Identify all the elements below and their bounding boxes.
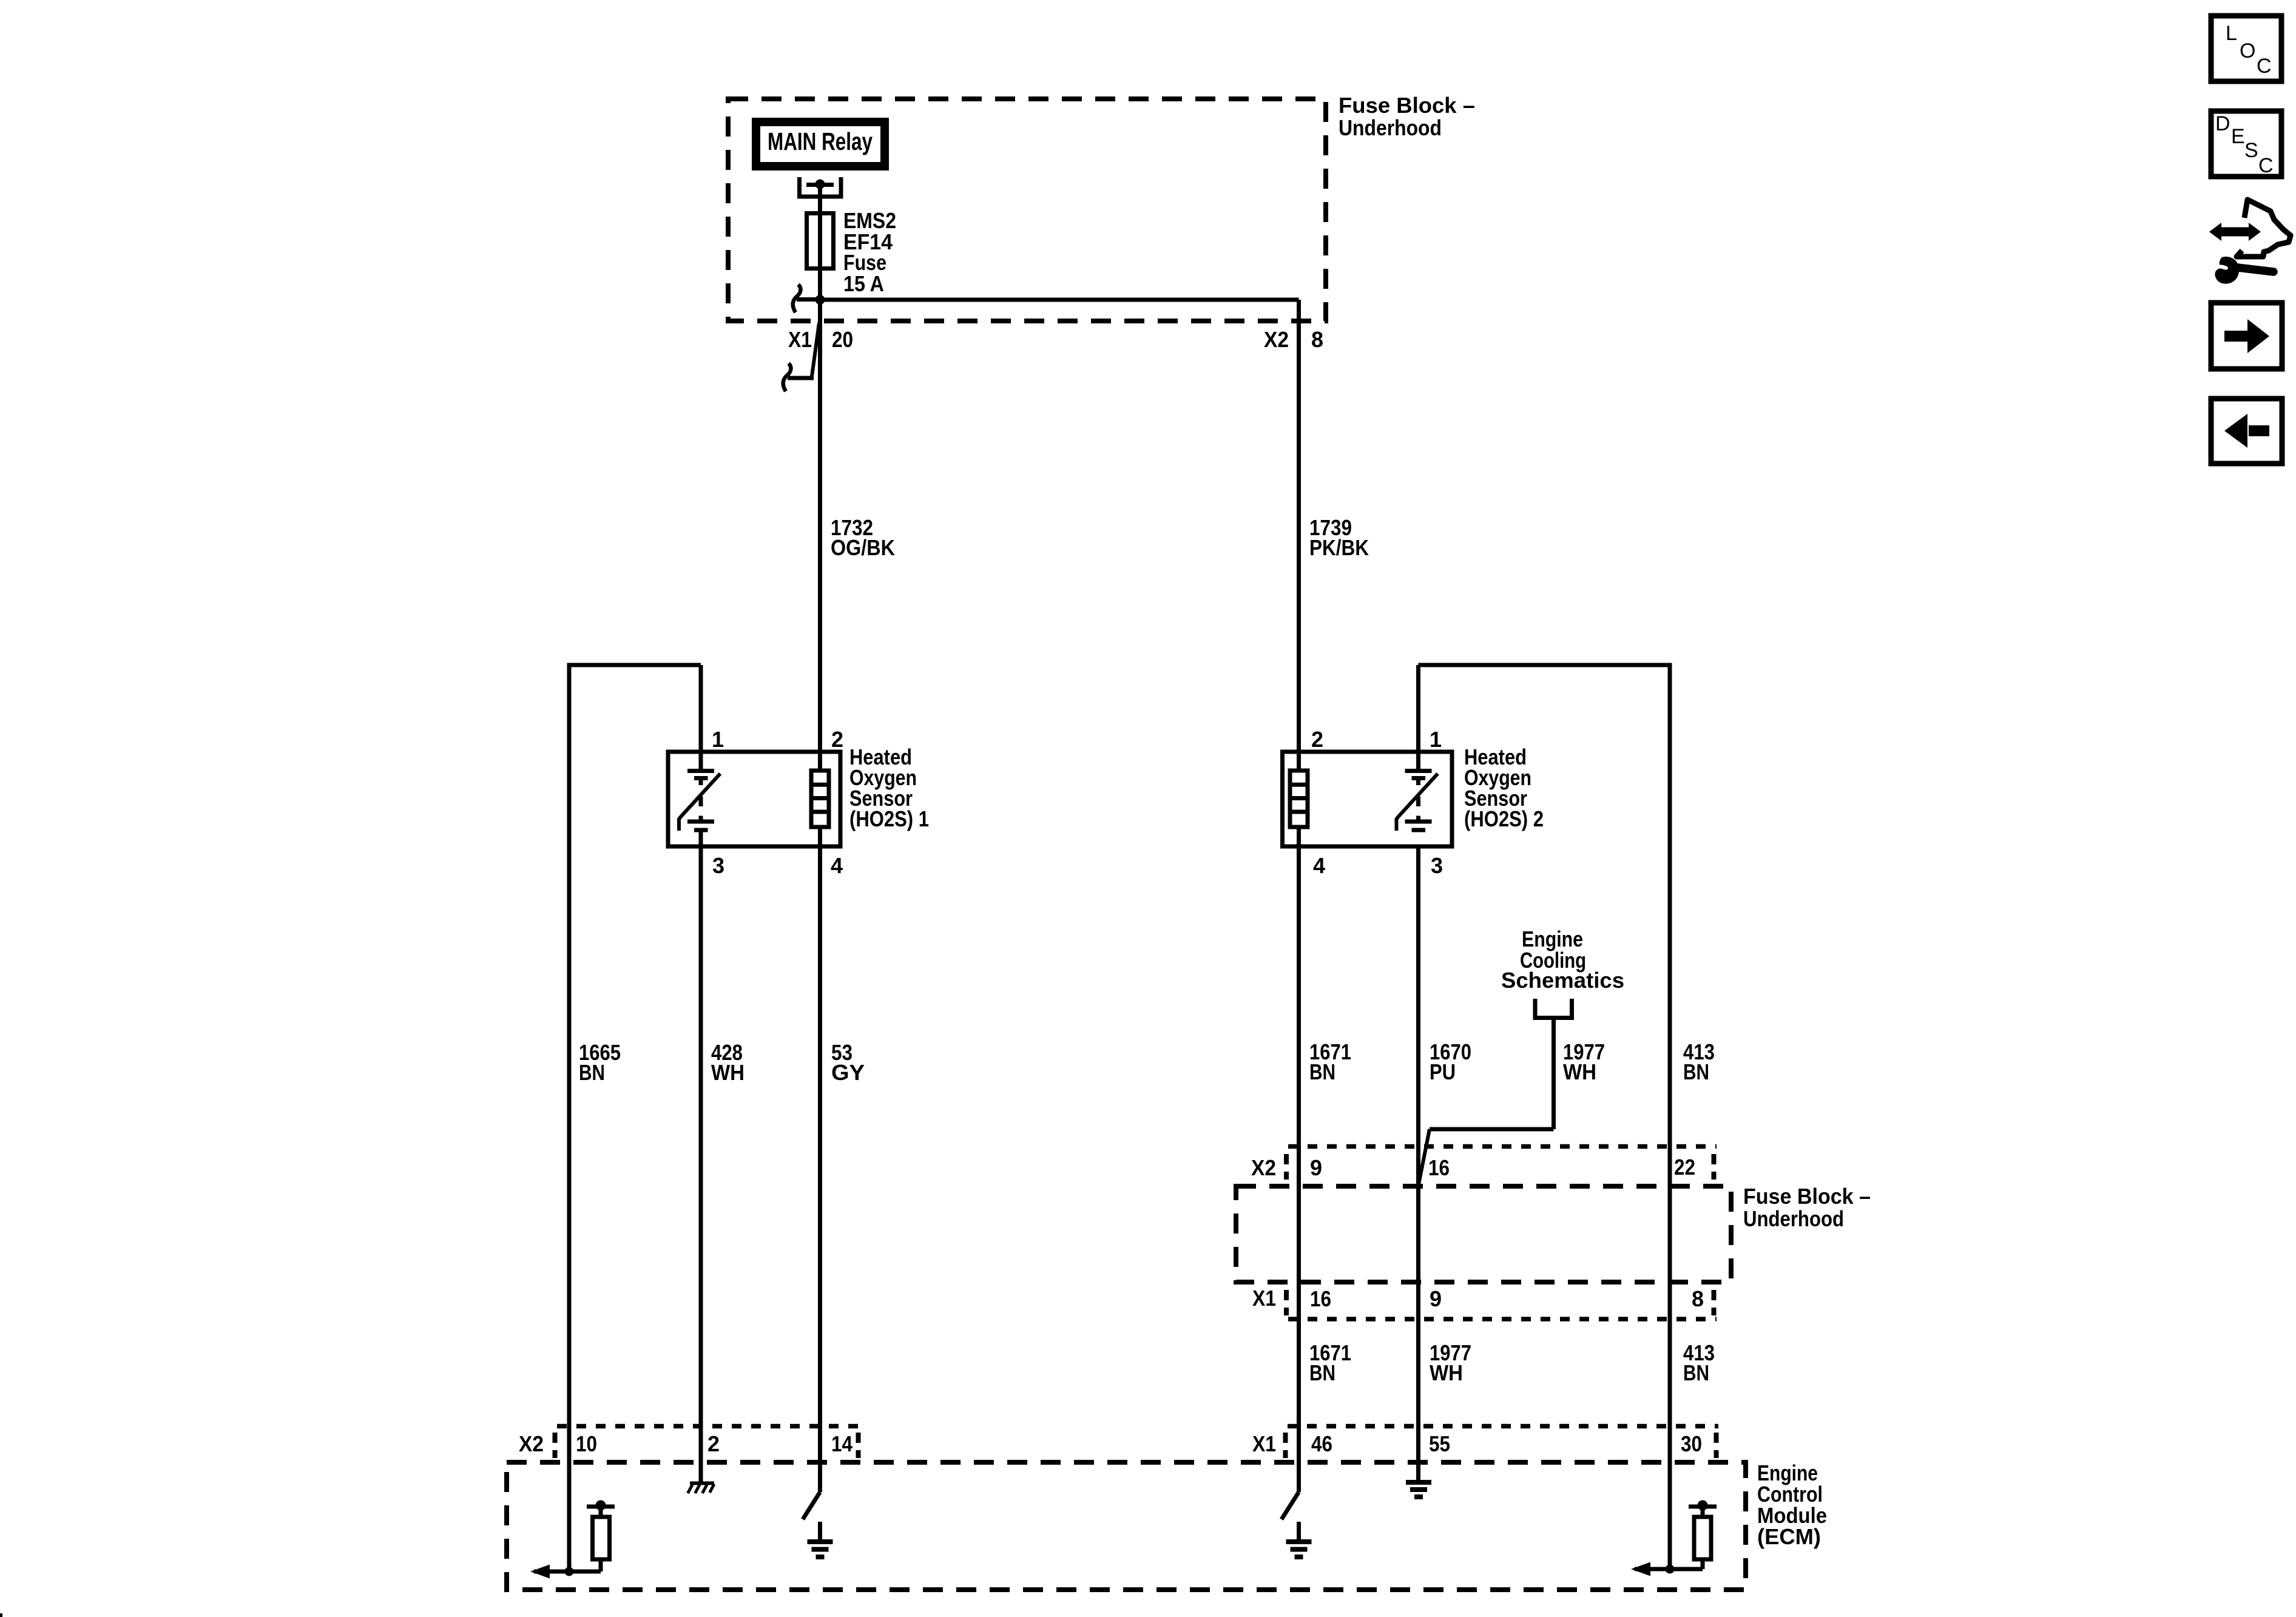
svg-text:WH: WH xyxy=(1430,1360,1463,1385)
svg-text:9: 9 xyxy=(1430,1286,1442,1311)
ECM internal: switch blade at pin 46 xyxy=(1281,1492,1299,1519)
svg-text:1: 1 xyxy=(1430,727,1442,752)
svg-text:20: 20 xyxy=(832,327,853,352)
label: 1977 WH (upper) xyxy=(1563,1039,1605,1084)
svg-text:4: 4 xyxy=(831,853,843,878)
node: junction dot at fuse output xyxy=(815,295,825,305)
fuse block underhood dashed box (top) xyxy=(728,99,1326,321)
wire 1739 PK/BK: right drop from feed to HO2S2 pin 2 xyxy=(1297,300,1301,771)
svg-text:Underhood: Underhood xyxy=(1743,1206,1844,1231)
svg-text:46: 46 xyxy=(1311,1431,1332,1456)
svg-text:30: 30 xyxy=(1681,1431,1702,1456)
label: connector X1 pin 20 xyxy=(788,327,853,352)
svg-text:10: 10 xyxy=(576,1431,597,1456)
ground: earth ground at ECM pin 55 xyxy=(1406,1482,1431,1497)
icon: LOC box (top right) xyxy=(2211,16,2281,81)
sensor B1 HO2S1 box xyxy=(668,752,840,846)
mark: page corner speck bottom-left xyxy=(0,1613,2,1617)
wire 1671 BN: HO2S2 pin 4 down through fuse block to ECM X1-46 xyxy=(1297,846,1301,1492)
wire: junction stub left with connector hook (X1-20) xyxy=(793,285,820,312)
ECM internal: switch blade at pin 14 xyxy=(803,1492,820,1519)
wire 1670 PU: HO2S2 pin 3 down to fuse block X2-16 xyxy=(1416,846,1420,1480)
icon: right arrow box xyxy=(2211,303,2282,369)
off-page connector bracket for Engine Cooling Schematics xyxy=(1535,999,1572,1018)
svg-text:9: 9 xyxy=(1310,1155,1322,1180)
svg-text:BN: BN xyxy=(1683,1360,1709,1385)
svg-text:X2: X2 xyxy=(519,1431,544,1456)
label: Heated Oxygen Sensor (HO2S) 2 xyxy=(1464,744,1544,831)
svg-text:OG/BK: OG/BK xyxy=(831,535,895,560)
icon: DESC box xyxy=(2211,111,2281,177)
svg-text:Fuse Block –: Fuse Block – xyxy=(1339,93,1475,118)
svg-text:BN: BN xyxy=(1309,1360,1335,1385)
sensor cell inside HO2S2 xyxy=(1397,771,1438,831)
label: 428 WH xyxy=(711,1040,745,1085)
wire 1977 WH: off-page bracket down, left, diagonal into X2-16 xyxy=(1419,1018,1554,1184)
label: 413 BN (upper) xyxy=(1683,1039,1715,1084)
svg-text:L: L xyxy=(2226,22,2237,45)
wire 1665 BN: HO2S1 pin 1 loop to ECM X2-10 xyxy=(569,663,701,1572)
svg-text:S: S xyxy=(2244,139,2258,162)
label: Heated Oxygen Sensor (HO2S) 1 xyxy=(849,744,929,831)
svg-text:MAIN Relay: MAIN Relay xyxy=(768,127,873,155)
ground: chassis ground at ECM pin 2 xyxy=(688,1484,715,1494)
heater element inside HO2S2 xyxy=(1290,771,1308,827)
fuse EF14 EMS2 15A xyxy=(807,213,834,269)
svg-text:8: 8 xyxy=(1692,1286,1704,1311)
relay K1 contact symbol xyxy=(800,177,842,197)
svg-text:X2: X2 xyxy=(1264,327,1289,352)
label: X1 row pins 16 9 8 xyxy=(1252,1286,1704,1311)
svg-text:22: 22 xyxy=(1674,1155,1695,1180)
label: 1671 BN (lower) xyxy=(1309,1340,1351,1385)
label: Fuse Block - Underhood (top) xyxy=(1339,93,1475,140)
svg-text:X1: X1 xyxy=(1252,1431,1276,1456)
label: 1732 OG/BK xyxy=(831,515,895,560)
svg-text:(ECM): (ECM) xyxy=(1757,1524,1821,1549)
wire 53 GY: HO2S1 pin 4 down to ECM X2-14 xyxy=(818,846,822,1492)
label: ECM X1 pins 46 55 30 xyxy=(1252,1431,1702,1456)
label: Engine Cooling Schematics (off-page reference) xyxy=(1501,927,1624,993)
fuse block underhood dashed box (middle) xyxy=(1236,1186,1731,1282)
svg-text:(HO2S) 2: (HO2S) 2 xyxy=(1464,806,1544,831)
svg-text:14: 14 xyxy=(831,1431,853,1456)
svg-text:WH: WH xyxy=(1563,1059,1596,1084)
svg-text:2: 2 xyxy=(1311,727,1323,752)
svg-text:WH: WH xyxy=(711,1060,745,1085)
svg-text:15 A: 15 A xyxy=(843,271,884,296)
svg-text:16: 16 xyxy=(1428,1155,1450,1180)
svg-text:3: 3 xyxy=(1431,853,1443,878)
svg-text:16: 16 xyxy=(1310,1286,1331,1311)
wire: HO2S1 heater internal stubs xyxy=(818,827,822,846)
relay K1 MAIN Relay box xyxy=(756,122,885,166)
label: HO2S2 pin numbers 2 1 4 3 xyxy=(1311,727,1443,878)
svg-text:BN: BN xyxy=(579,1060,605,1085)
svg-text:X1: X1 xyxy=(1252,1286,1276,1311)
svg-text:E: E xyxy=(2231,125,2245,148)
label: HO2S1 pin numbers 1 2 3 4 xyxy=(712,727,843,878)
wire 1732 OG/BK: fuse junction down to HO2S1 pin 2 xyxy=(818,300,822,771)
svg-text:2: 2 xyxy=(707,1431,720,1456)
svg-text:4: 4 xyxy=(1313,853,1325,878)
svg-text:D: D xyxy=(2215,112,2230,135)
label: EMS2 EF14 Fuse 15 A xyxy=(843,208,896,296)
svg-text:BN: BN xyxy=(1309,1059,1335,1084)
resistor: ECM pull-up at pin 10 xyxy=(587,1501,615,1572)
label: Engine Control Module (ECM) xyxy=(1757,1460,1827,1549)
svg-text:55: 55 xyxy=(1429,1431,1450,1456)
connector row X2 (fuse block middle, dotted) xyxy=(1286,1147,1717,1180)
svg-text:PU: PU xyxy=(1430,1059,1456,1084)
label: 1739 PK/BK xyxy=(1309,515,1369,560)
svg-text:BN: BN xyxy=(1683,1059,1709,1084)
connector row X2 (ECM, dotted) xyxy=(555,1426,862,1459)
svg-text:Underhood: Underhood xyxy=(1339,115,1442,140)
wire: HO2S2 heater bottom stub xyxy=(1297,827,1301,846)
sensor B2 HO2S2 box xyxy=(1283,752,1453,846)
label: connector X2 pin 8 xyxy=(1264,327,1323,352)
ECM internal: signal line with left arrow (pin 10) xyxy=(530,1565,601,1579)
wire: horizontal feed from fuse junction to right drop xyxy=(820,298,1299,302)
svg-text:X1: X1 xyxy=(788,327,812,352)
label: X2 row pins 9 16 22 xyxy=(1251,1155,1695,1180)
label: 1671 BN (upper) xyxy=(1309,1039,1351,1084)
svg-text:3: 3 xyxy=(712,853,724,878)
wire 428 WH: HO2S1 pin 3 down to ECM pin 2 xyxy=(699,832,703,1482)
ground: earth ground below pin 46 xyxy=(1286,1522,1312,1557)
label: 53 GY xyxy=(831,1040,865,1085)
node: ECM pin 30 junction dot xyxy=(1666,1565,1675,1574)
label: 1665 BN xyxy=(579,1040,621,1085)
svg-text:GY: GY xyxy=(831,1060,865,1085)
label: 413 BN (lower) xyxy=(1683,1340,1715,1385)
wire: X1-20 connector diagonal jog and hook xyxy=(783,323,819,391)
svg-text:PK/BK: PK/BK xyxy=(1309,535,1369,560)
svg-text:X2: X2 xyxy=(1251,1155,1276,1180)
svg-text:1: 1 xyxy=(712,727,724,752)
label: 1670 PU xyxy=(1430,1039,1471,1084)
wire 413 BN: HO2S2 pin 1 loop up and right, down to ECM pin 30 xyxy=(1419,663,1670,1570)
ground: earth ground below pin 14 xyxy=(808,1522,833,1557)
node: ECM pin 10 junction dot xyxy=(565,1567,574,1576)
wire: relay contact to fuse to junction (vertical) xyxy=(818,186,822,300)
svg-text:Schematics: Schematics xyxy=(1501,968,1624,993)
svg-text:8: 8 xyxy=(1311,327,1323,352)
connector row X1 (fuse block middle, dotted) xyxy=(1286,1290,1717,1319)
icon: diagnostic wrench with double arrow xyxy=(2209,200,2291,284)
sensor cell inside HO2S1 (galvanic cell with wiper) xyxy=(679,771,720,831)
icon: left arrow box xyxy=(2211,399,2282,464)
ECM dashed box xyxy=(507,1462,1746,1590)
ECM internal: signal line with left arrow (pin 30) xyxy=(1631,1562,1703,1576)
resistor: ECM pull-up at pin 30 xyxy=(1689,1501,1717,1570)
svg-text:Fuse Block –: Fuse Block – xyxy=(1743,1184,1871,1209)
connector row X1 (ECM, dotted) xyxy=(1286,1426,1719,1459)
svg-text:O: O xyxy=(2240,39,2255,62)
svg-text:(HO2S) 1: (HO2S) 1 xyxy=(849,806,929,831)
svg-text:2: 2 xyxy=(831,727,843,752)
svg-text:C: C xyxy=(2257,55,2272,78)
label: 1977 WH (lower) xyxy=(1430,1340,1471,1385)
heater element inside HO2S1 xyxy=(811,771,829,827)
label: ECM X2 pins 10 2 14 xyxy=(519,1431,853,1456)
label: Fuse Block - Underhood (middle) xyxy=(1743,1184,1871,1231)
svg-text:C: C xyxy=(2258,154,2274,177)
